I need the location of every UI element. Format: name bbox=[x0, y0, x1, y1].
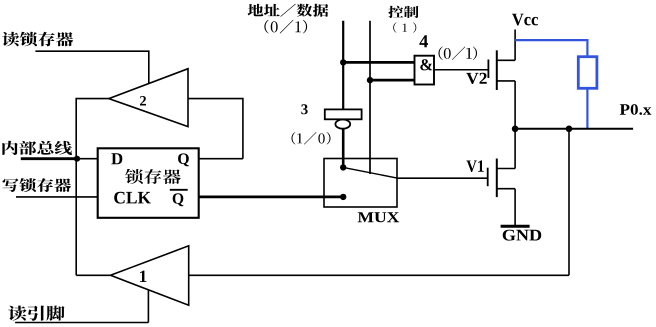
wire: AND gate input 2 (thick) bbox=[370, 79, 415, 82]
label 地址/数据 bbox=[248, 4, 329, 17]
wire: latch Q-bar output (thick) bbox=[199, 195, 344, 198]
mux switch wiper bbox=[343, 167, 399, 178]
label (0/1) top bbox=[264, 20, 307, 34]
wire: buffer 1 output to internal bus bbox=[76, 274, 110, 276]
wire: read-pin enable line bbox=[15, 288, 148, 323]
wire: V2 drain to Vcc bbox=[514, 30, 516, 61]
label 读锁存器 bbox=[2, 32, 73, 47]
label 锁存器 bbox=[125, 169, 181, 184]
label 2 bbox=[140, 96, 146, 106]
label Vcc bbox=[512, 14, 538, 26]
node: bus/D junction bbox=[74, 156, 80, 162]
AND gate 4 box bbox=[415, 56, 435, 85]
wire: V1 drain up to node bbox=[514, 129, 516, 169]
mux box bbox=[324, 159, 397, 208]
wire: latch Q to buffer 2 input bbox=[188, 98, 243, 159]
wire: latch Q output bbox=[199, 158, 243, 160]
label V1 bbox=[466, 160, 483, 172]
wire: V2 source down to P0.x node bbox=[514, 81, 516, 129]
label GND bbox=[503, 230, 542, 241]
wire: buffer 2 output to internal bus bbox=[76, 98, 110, 100]
ground bar bbox=[501, 225, 530, 228]
label V2 bbox=[466, 73, 486, 84]
node: address branch to AND gate bbox=[340, 59, 346, 65]
label CLK bbox=[114, 192, 151, 204]
resistor R (blue pull-up) bbox=[578, 57, 597, 89]
label 1 bbox=[140, 271, 146, 282]
wire: inverter output to mux bbox=[342, 129, 345, 168]
transistor V2 drain lead bbox=[497, 59, 515, 61]
wire: V1 source to ground bbox=[514, 189, 516, 226]
label P0.x bbox=[620, 104, 652, 115]
label 内部总线 bbox=[2, 141, 72, 155]
wire: write-latch line to CLK bbox=[16, 196, 98, 198]
wire: internal bus stub (thick) bbox=[21, 157, 78, 160]
inverter 3 body bbox=[325, 109, 362, 119]
label 读引脚 bbox=[8, 306, 64, 321]
label D bbox=[111, 153, 122, 164]
transistor V1 drain lead bbox=[497, 168, 515, 170]
label 4 bbox=[419, 35, 428, 47]
wire: AND gate input 1 (thick) bbox=[343, 61, 414, 64]
latch box bbox=[98, 148, 199, 218]
node: mux input from inverter bbox=[340, 164, 346, 170]
transistor V2 gate bar bbox=[487, 60, 489, 79]
pull-up wire from Vcc (blue) bbox=[515, 40, 587, 57]
inverter 3 bubble bbox=[335, 120, 350, 129]
transistor V2 source lead bbox=[497, 80, 515, 82]
Q-bar overline bbox=[170, 189, 188, 191]
wire: AND output to V2 gate bbox=[434, 69, 488, 71]
label (0/1) at AND output bbox=[439, 47, 478, 61]
wire: address/data vertical bbox=[342, 21, 344, 110]
label 3 bbox=[301, 104, 307, 114]
transistor V1 gate bar bbox=[487, 168, 489, 187]
label & bbox=[420, 59, 432, 70]
node: mux input from Q-bar bbox=[340, 194, 346, 200]
label MUX bbox=[358, 212, 400, 222]
wire: D input bbox=[77, 158, 98, 160]
label 控制 bbox=[388, 6, 418, 18]
node: feedback junction bbox=[566, 126, 573, 133]
tri-state buffer 2 bbox=[109, 69, 188, 127]
node: V2/V1 drain junction bbox=[512, 126, 519, 133]
label (1) bbox=[393, 22, 416, 32]
wire: feedback from P0.x node to buffer 1 input bbox=[189, 129, 569, 275]
wire: control vertical bbox=[369, 21, 371, 174]
tri-state buffer 1 bbox=[111, 246, 189, 305]
wire: internal bus vertical bbox=[75, 98, 77, 275]
label (1/0) bbox=[292, 132, 331, 145]
transistor V2 channel bar bbox=[496, 50, 498, 90]
wire: P0.x node line bbox=[515, 128, 633, 130]
wire: resistor to P0.x node (blue) bbox=[586, 88, 588, 129]
label Q bbox=[178, 153, 189, 166]
transistor V1 channel bar bbox=[496, 159, 498, 198]
label 写锁存器 bbox=[2, 178, 71, 192]
wire: read-latch enable line bbox=[35, 51, 148, 85]
wire: mux output to V1 gate bbox=[397, 177, 488, 179]
label Q-bar bbox=[173, 193, 184, 206]
transistor V1 source lead bbox=[497, 188, 515, 190]
node: control branch to AND gate bbox=[367, 77, 373, 83]
